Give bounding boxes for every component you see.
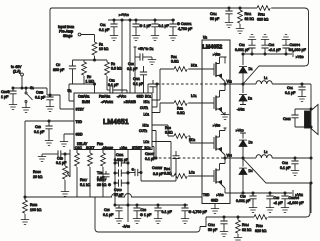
ground U2 GND pin	[214, 204, 216, 207]
capacitor CS1 0.1uF	[113, 20, 115, 24]
svg-text:U1: U1	[68, 89, 73, 93]
capacitor CSUPP3 1000uF	[284, 193, 286, 196]
svg-text:RFL4: RFL4	[242, 223, 249, 227]
svg-text:47 µF: 47 µF	[114, 193, 124, 197]
op-amp U1 LM4651 box	[74, 93, 152, 150]
wire input network top rail	[73, 59, 108, 61]
svg-text:▸VSS: ▸VSS	[120, 146, 127, 150]
svg-text:3.3Ω: 3.3Ω	[165, 131, 173, 135]
capacitor CSUPP2 4700uF	[184, 205, 186, 208]
wire +VCC rail	[108, 19, 175, 21]
capacitor CSTB 0.1uF	[47, 88, 50, 97]
svg-text:5.1 kΩ: 5.1 kΩ	[80, 183, 91, 187]
svg-text:S1: S1	[30, 86, 34, 90]
svg-text:3.3 µF: 3.3 µF	[153, 172, 164, 176]
svg-text:✲ 4,700 µF: ✲ 4,700 µF	[189, 210, 208, 214]
capacitor CDD 0.001uF	[115, 162, 128, 164]
svg-text:TAB: TAB	[97, 171, 103, 175]
svg-text:10 kΩ: 10 kΩ	[99, 47, 109, 51]
svg-text:✲: ✲	[132, 168, 135, 172]
capacitor CIN2 0.1uF inline	[107, 89, 110, 91]
speaker	[305, 111, 311, 128]
svg-text:✲ 1 µF: ✲ 1 µF	[140, 24, 152, 28]
svg-text:0.1 µF: 0.1 µF	[280, 166, 291, 170]
wire +VDD rail	[243, 51, 293, 57]
svg-text:62 kΩ: 62 kΩ	[245, 17, 255, 21]
svg-text:0.1 µF: 0.1 µF	[35, 96, 46, 100]
svg-text:to 48V: to 48V	[11, 65, 22, 69]
svg-text:0.1 µF: 0.1 µF	[34, 130, 45, 134]
potentiometer ROSC 20k	[64, 153, 66, 155]
wire lower feedback diagonal and column	[206, 159, 310, 218]
capacitor CO1 0.1uF	[301, 83, 303, 85]
svg-text:VD2: VD2	[227, 80, 233, 84]
svg-text:CB2: CB2	[109, 79, 115, 83]
transistor array U2 LM4652 box	[202, 40, 230, 204]
wire BO2 routing	[152, 147, 154, 159]
svg-text:3.3Ω: 3.3Ω	[164, 172, 172, 176]
resistor RF 1M	[83, 60, 85, 62]
capacitor CS9 1uF	[269, 193, 271, 196]
resistor RFL2 620k	[257, 6, 270, 11]
switch S1	[25, 88, 27, 92]
svg-text:1 MΩ: 1 MΩ	[86, 80, 95, 84]
svg-text:RFL3: RFL3	[256, 224, 263, 228]
svg-text:RG4: RG4	[164, 167, 170, 171]
svg-text:▸+VCC: ▸+VCC	[119, 13, 129, 17]
capacitor CFF 0.1uF	[152, 80, 154, 84]
capacitor C5V	[135, 56, 140, 58]
wire bridge node OUT1	[224, 82, 226, 91]
svg-text:CO2: CO2	[282, 161, 288, 165]
wire HO1 routing	[152, 69, 174, 100]
wire OUT2 routing	[152, 131, 156, 159]
svg-text:BO2: BO2	[145, 146, 152, 150]
resistor RG2 3.3R	[174, 101, 187, 106]
svg-text:▸VCC: ▸VCC	[236, 129, 244, 133]
svg-text:D4: D4	[249, 169, 254, 173]
resistor RG4 3.3R	[174, 174, 187, 179]
resistor RDLY 5.1k	[76, 150, 78, 154]
svg-text:GND: GND	[211, 199, 219, 203]
svg-text:U2: U2	[203, 36, 208, 40]
svg-text:OUT2: OUT2	[139, 129, 148, 133]
wire input network bottom rail	[69, 84, 95, 93]
resistor ROSC2	[89, 150, 91, 154]
svg-text:CS5: CS5	[274, 196, 280, 200]
wire OUT1 BO1 to switch node	[152, 84, 157, 107]
capacitor CS8 0.001uF	[252, 193, 254, 196]
svg-text:56 pF: 56 pF	[210, 17, 220, 21]
svg-text:◂1 µF: ◂1 µF	[274, 201, 284, 205]
svg-text:0.1 µF: 0.1 µF	[127, 67, 138, 71]
svg-text:0.1 µF: 0.1 µF	[159, 24, 170, 28]
svg-text:CS2: CS2	[239, 43, 245, 47]
capacitor CB6 1uF	[136, 205, 138, 208]
svg-text:R2: R2	[111, 62, 116, 66]
svg-text:4,700 µF: 4,700 µF	[178, 27, 193, 31]
svg-text:RFL1: RFL1	[245, 12, 252, 16]
svg-text:HO1: HO1	[191, 64, 198, 68]
svg-text:GND: GND	[76, 133, 84, 137]
svg-text:50 pF: 50 pF	[208, 228, 218, 232]
svg-text:FBB/VB2: FBB/VB2	[99, 95, 111, 99]
svg-text:◂0.1 µF: ◂0.1 µF	[269, 48, 282, 52]
svg-text:Pre-Amp: Pre-Amp	[59, 30, 73, 34]
capacitor CSUPP4 1000uF	[285, 48, 287, 54]
svg-text:◂VEE: ◂VEE	[237, 108, 245, 112]
capacitor CVCC 47uF	[115, 182, 128, 184]
capacitor CAB 1uF	[105, 171, 107, 174]
svg-text:CDD1: CDD1	[116, 153, 124, 157]
capacitor CG2 0.1uF	[143, 66, 145, 72]
svg-text:CSUPP3: CSUPP3	[289, 196, 300, 200]
wire feedback top line and right column	[50, 8, 309, 95]
capacitor CS2 1uF	[135, 20, 137, 24]
svg-text:CBB/VB1: CBB/VB1	[78, 95, 90, 99]
svg-text:◂1,000 µF: ◂1,000 µF	[288, 201, 305, 205]
wire +VCC drops to U1	[122, 20, 130, 93]
svg-text:CO1: CO1	[287, 86, 293, 90]
svg-text:HO1: HO1	[144, 100, 151, 104]
wire bottom border	[95, 197, 200, 232]
svg-text:CB5: CB5	[104, 208, 110, 212]
svg-text:HO2: HO2	[143, 124, 150, 128]
svg-text:82 kΩ: 82 kΩ	[242, 228, 252, 232]
svg-text:3.3 kΩ: 3.3 kΩ	[111, 67, 122, 71]
wire OUT1 dashed node	[157, 83, 221, 85]
ground mid -VSS	[224, 112, 226, 115]
svg-text:RG2: RG2	[177, 107, 183, 111]
capacitor CBYP	[115, 172, 128, 174]
svg-text:1 µF: 1 µF	[1, 95, 9, 99]
resistor RFL4 82k	[237, 216, 239, 218]
svg-text:CFF1: CFF1	[133, 77, 141, 81]
svg-text:CSTART: CSTART	[152, 166, 163, 170]
svg-text:39 kΩ: 39 kΩ	[97, 183, 107, 187]
svg-text:0.1 µF: 0.1 µF	[133, 82, 144, 86]
svg-text:Input from: Input from	[58, 25, 74, 29]
resistor RG3 3.3R	[174, 134, 187, 139]
svg-text:CS1: CS1	[100, 23, 106, 27]
svg-text:0.1 µF: 0.1 µF	[162, 210, 173, 214]
svg-text:EA/IN: EA/IN	[82, 100, 91, 104]
capacitor CS3 0.1uF	[154, 20, 156, 24]
transistor Q2	[213, 97, 215, 109]
svg-text:3.3Ω: 3.3Ω	[171, 60, 179, 64]
resistor R2 3.3k	[106, 60, 108, 62]
svg-text:CBOOT: CBOOT	[145, 152, 155, 156]
svg-text:CSTB: CSTB	[36, 91, 44, 95]
input terminal	[78, 33, 81, 36]
transistor Q3	[213, 137, 215, 149]
capacitor CO2 0.1uF	[294, 157, 296, 159]
wire +5V tap	[134, 47, 137, 93]
svg-text:GND: GND	[137, 95, 145, 99]
transistor Q1	[213, 64, 215, 76]
svg-text:START: START	[132, 146, 142, 150]
wire to IN pin	[69, 84, 74, 101]
resistor RG1 3.3R	[174, 67, 187, 72]
svg-text:LO2: LO2	[144, 140, 150, 144]
wire -VSS decoupling rail	[115, 204, 188, 206]
capacitor stack rails	[115, 150, 128, 223]
svg-text:✲ CSUPP1: ✲ CSUPP1	[177, 22, 192, 26]
capacitor CSD 0.1uF	[61, 150, 70, 155]
svg-text:CFL2: CFL2	[208, 223, 215, 227]
wire feedback staircase to STBY	[47, 95, 74, 109]
transistor Q4	[213, 170, 215, 182]
svg-text:D3: D3	[249, 141, 254, 145]
svg-text:0.001 µF: 0.001 µF	[236, 199, 251, 203]
svg-text:0.001 µF: 0.001 µF	[114, 158, 129, 162]
svg-text:100 kΩ: 100 kΩ	[30, 208, 42, 212]
capacitor CFL2 50pF	[223, 216, 225, 218]
svg-text:CBSN: CBSN	[283, 117, 291, 121]
wire LO2 routing	[152, 142, 174, 177]
wire bridge to -VSS pin	[225, 188, 243, 193]
svg-text:RFL2: RFL2	[258, 13, 265, 17]
capacitor CS4 0.1uF	[264, 48, 266, 54]
svg-text:▸VDD: ▸VDD	[213, 124, 220, 128]
svg-text:BO1: BO1	[145, 95, 152, 99]
svg-text:LO1: LO1	[144, 113, 150, 117]
svg-text:390 pF: 390 pF	[53, 68, 65, 72]
wire lower feedback step	[200, 217, 206, 227]
svg-text:+5V to D1: +5V to D1	[138, 47, 154, 51]
diode D3	[239, 140, 247, 146]
svg-text:▸BIAS/B: ▸BIAS/B	[124, 100, 136, 104]
svg-text:✲1,000 µF: ✲1,000 µF	[289, 48, 307, 52]
svg-text:620 kΩ: 620 kΩ	[257, 18, 269, 22]
ground GND pin	[64, 134, 74, 139]
wire HO2 routing	[152, 125, 174, 136]
svg-text:CS8: CS8	[240, 195, 246, 199]
svg-text:CSD: CSD	[57, 157, 63, 161]
svg-text:CBB: CBB	[35, 125, 41, 129]
capacitor CBOOT 0.1uF	[141, 150, 176, 182]
wire LO1 routing	[152, 103, 174, 113]
svg-text:SCKT: SCKT	[86, 146, 95, 150]
svg-text:RG3: RG3	[165, 126, 171, 130]
svg-text:CG2: CG2	[128, 62, 134, 66]
svg-text:0.1 µF: 0.1 µF	[108, 83, 119, 87]
svg-text:✲ 1 µF: ✲ 1 µF	[140, 213, 152, 217]
svg-text:◂VDD/BP: ◂VDD/BP	[102, 146, 113, 150]
svg-text:TSD: TSD	[76, 120, 83, 124]
svg-text:CB6: CB6	[141, 208, 147, 212]
capacitor CF 390pF	[72, 60, 74, 66]
supply terminal 48V	[21, 73, 24, 76]
svg-text:VD4: VD4	[227, 154, 233, 158]
svg-text:RG1: RG1	[171, 55, 177, 59]
resistor RFL3 820k	[254, 215, 267, 220]
wire -VEE rail with hops	[25, 194, 202, 197]
inductor L1	[243, 83, 256, 85]
capacitor CFL1 56pF	[228, 7, 230, 9]
svg-text:CBS✲: CBS✲	[1, 90, 11, 94]
svg-text:CVCC: CVCC	[114, 188, 122, 192]
svg-text:RSTB: RSTB	[30, 203, 38, 207]
capacitor CSUPP1 4700uF	[172, 20, 174, 24]
diode D1	[242, 54, 244, 65]
svg-text:LO1: LO1	[191, 94, 197, 98]
capacitor CSN zobel	[295, 109, 311, 127]
svg-text:▸VDD: ▸VDD	[296, 55, 304, 59]
diode D4	[242, 158, 244, 167]
svg-text:0.1 µF: 0.1 µF	[103, 213, 114, 217]
wire speaker column	[310, 109, 312, 213]
svg-text:LM4651: LM4651	[103, 119, 129, 126]
svg-text:RDLY: RDLY	[80, 178, 87, 182]
svg-text:CFL1: CFL1	[210, 12, 217, 16]
capacitor CB7 0.1uF	[157, 205, 159, 208]
svg-text:Stage: Stage	[63, 34, 72, 38]
inductor L2	[243, 157, 256, 159]
resistor RSCKT 39k	[102, 150, 104, 154]
diode D2	[239, 95, 247, 101]
wire TSD to left column	[25, 121, 74, 197]
svg-text:0.1 µF: 0.1 µF	[99, 28, 110, 32]
svg-text:820 kΩ: 820 kΩ	[255, 229, 267, 233]
wire bridge node OUT2	[224, 155, 226, 164]
resistor RFL1 62k	[239, 7, 241, 9]
svg-text:CS4: CS4	[269, 43, 275, 47]
svg-text:CF: CF	[56, 63, 61, 67]
svg-text:OSC: OSC	[75, 146, 83, 150]
resistor RSTB 100k	[24, 197, 26, 200]
svg-text:OUT1: OUT1	[140, 106, 149, 110]
svg-text:◂+VGATE: ◂+VGATE	[101, 100, 113, 104]
capacitor CBB 0.1uF	[48, 121, 50, 126]
svg-text:0.001 µF: 0.001 µF	[235, 48, 250, 52]
capacitor CSTART 3.3uF	[128, 172, 135, 174]
svg-text:0.1 µF: 0.1 µF	[285, 91, 296, 95]
svg-text:3.3Ω: 3.3Ω	[177, 111, 185, 115]
svg-text:STBY: STBY	[76, 108, 85, 112]
svg-text:D1: D1	[249, 67, 254, 71]
svg-text:RF: RF	[87, 75, 92, 79]
svg-text:◂+VCC: ◂+VCC	[117, 95, 126, 99]
svg-text:▸VDD: ▸VDD	[213, 53, 220, 57]
wire OUT2 dashed node	[154, 157, 221, 159]
capacitor CB5 0.1uF	[118, 205, 120, 208]
svg-text:TSD: TSD	[203, 193, 210, 197]
svg-text:R1: R1	[99, 43, 104, 47]
capacitor CS2 0.001uF	[251, 48, 253, 54]
svg-text:D2: D2	[248, 97, 253, 101]
wire 48V node row	[13, 87, 47, 89]
svg-text:1 µF: 1 µF	[97, 176, 105, 180]
resistor R1 10k	[92, 42, 97, 55]
svg-text:▸VSS: ▸VSS	[217, 193, 224, 197]
capacitor CBS 1uF	[12, 88, 14, 91]
svg-text:(2 A): (2 A)	[13, 70, 21, 74]
svg-text:LM4652: LM4652	[203, 45, 223, 51]
svg-text:HO2: HO2	[189, 138, 196, 142]
svg-text:LO2: LO2	[189, 171, 195, 175]
svg-text:◂VSS: ◂VSS	[123, 225, 131, 229]
svg-text:CSUPP4: CSUPP4	[290, 43, 301, 47]
svg-text:20 kΩ: 20 kΩ	[33, 175, 43, 179]
svg-text:ROSC: ROSC	[33, 170, 41, 174]
wire -VEE rail	[230, 190, 293, 196]
